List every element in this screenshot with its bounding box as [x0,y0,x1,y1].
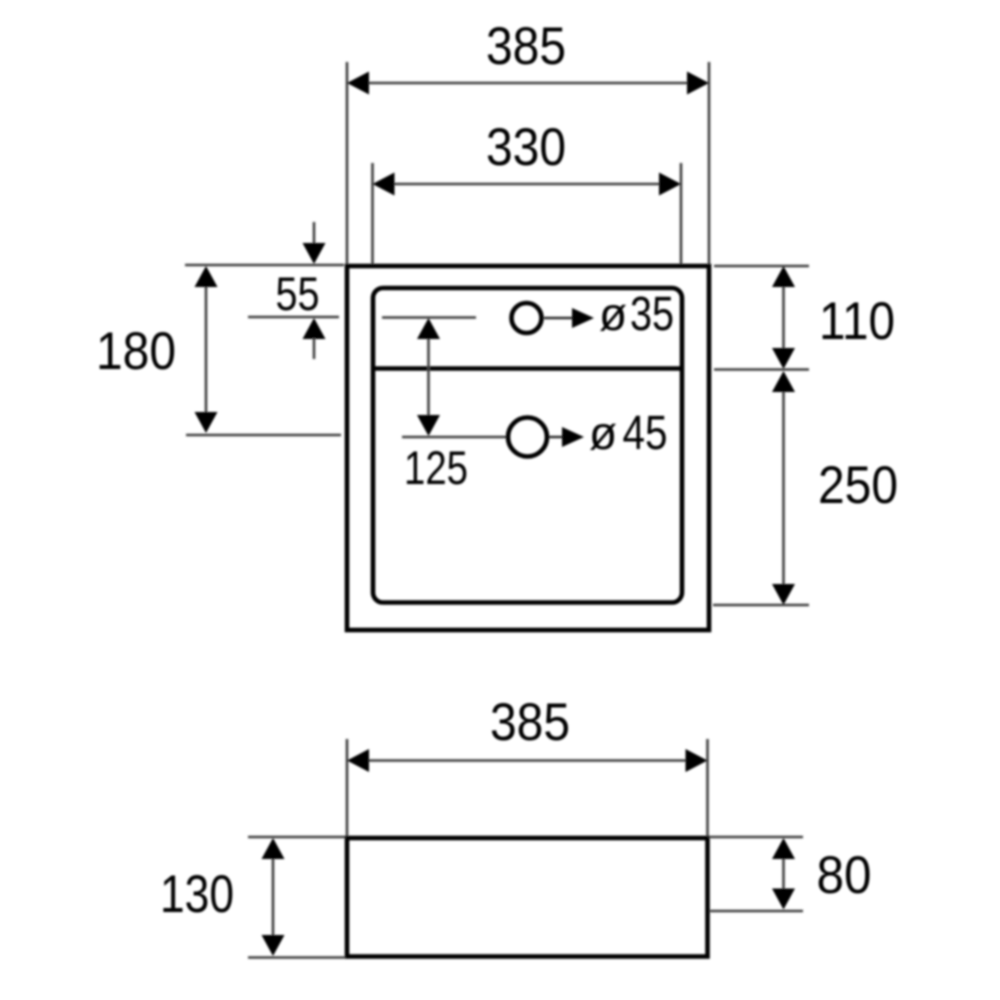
svg-text:35: 35 [630,288,674,341]
ref line top-left (shared by 55 and 180) [185,264,344,267]
svg-text:330: 330 [486,118,566,177]
body rectangle [347,838,708,957]
drain centerline [402,436,506,439]
dim 385 bottom [346,739,349,836]
pointer arrow to ø45 [549,436,568,439]
svg-text:ø: ø [589,407,617,459]
dim 125 [427,322,430,432]
dim 385 top [346,62,349,264]
svg-text:55: 55 [276,267,320,320]
svg-text:385: 385 [486,17,566,76]
dim 130 left [248,836,345,839]
basin inner bowl (rounded) [373,288,682,603]
svg-text:125: 125 [404,441,468,494]
dim 180 [205,270,208,429]
basin outer square [347,266,709,630]
deck divider line [373,366,682,371]
drain hole circle [508,418,547,457]
svg-text:385: 385 [490,693,570,752]
pointer arrow to ø35 [544,317,578,320]
dim 80 right [709,836,803,839]
svg-text:110: 110 [819,292,895,351]
svg-text:80: 80 [817,846,872,905]
svg-text:130: 130 [160,865,234,924]
svg-text:250: 250 [818,456,898,515]
dim 250 right [713,604,809,607]
svg-text:45: 45 [623,407,668,460]
svg-text:180: 180 [96,322,176,381]
faucet centerline [382,316,476,319]
svg-text:ø: ø [599,288,627,340]
dim 55 [248,316,339,319]
dim 110 right [714,265,809,268]
faucet hole circle [512,303,542,333]
dim 330 [371,163,374,264]
